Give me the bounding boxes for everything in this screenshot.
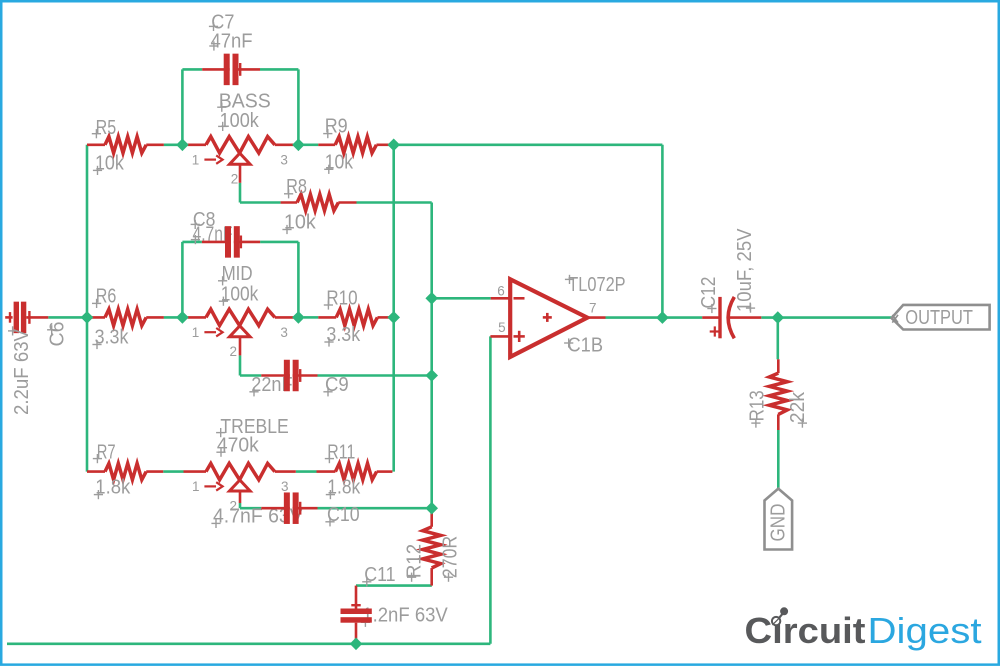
wire — [318, 507, 432, 510]
resistor R8 — [281, 194, 357, 210]
resistor R13 — [769, 359, 787, 430]
resistor R9 — [318, 137, 389, 153]
svg-text:22k: 22k — [787, 391, 809, 423]
resistor R5 — [87, 137, 164, 153]
label R7 name — [93, 441, 116, 463]
label BASS pin 3 — [280, 152, 288, 167]
wire — [304, 144, 319, 147]
junction node (87.0,317.4) — [81, 312, 92, 323]
label R12 value 270R — [440, 536, 462, 582]
label R11 name — [325, 441, 356, 463]
svg-text:Cırcuit: Cırcuit — [745, 610, 866, 651]
capacitor C10 — [261, 492, 317, 524]
label R5 value 10k — [93, 153, 125, 176]
svg-text:3: 3 — [280, 152, 288, 167]
label MID pin 3 — [280, 325, 288, 340]
wire — [164, 144, 183, 147]
label op-amp pin 7 — [589, 300, 597, 315]
svg-text:1.8k: 1.8k — [95, 476, 131, 498]
capacitor C11 — [341, 586, 372, 644]
resistor R6 — [87, 309, 164, 325]
svg-text:5: 5 — [498, 320, 506, 335]
wire feedback vertical — [392, 145, 395, 472]
capacitor C9 — [261, 360, 317, 392]
label R10 name — [324, 288, 358, 310]
capacitor C8 — [202, 226, 260, 258]
svg-text:7: 7 — [589, 300, 597, 315]
wire ground bus — [7, 642, 490, 645]
junction node (298.4,317.4) — [293, 312, 304, 323]
svg-text:47nF: 47nF — [211, 30, 253, 52]
svg-text:470k: 470k — [217, 434, 260, 456]
svg-text:100k: 100k — [220, 110, 260, 132]
svg-text:R10: R10 — [326, 288, 357, 310]
svg-text:2.2uF 63V: 2.2uF 63V — [11, 328, 33, 415]
potentiometer BASS — [188, 137, 294, 183]
svg-text:3.3k: 3.3k — [95, 327, 130, 349]
capacitor C7 — [202, 54, 260, 86]
svg-text:10uF, 25V: 10uF, 25V — [734, 228, 756, 312]
svg-text:2: 2 — [231, 172, 239, 187]
svg-text:R5: R5 — [96, 117, 117, 139]
label R13 value 22k — [787, 391, 809, 428]
svg-text:2: 2 — [230, 344, 238, 359]
label op-amp designator C1B — [564, 334, 603, 356]
svg-text:3.3k: 3.3k — [326, 324, 361, 346]
label BASS value 100k — [218, 110, 260, 132]
svg-text:C10: C10 — [327, 504, 360, 526]
label R13 name — [747, 390, 769, 427]
wire — [182, 68, 202, 71]
wire — [296, 470, 317, 473]
svg-text:1: 1 — [192, 152, 200, 167]
resistor R11 — [317, 463, 393, 479]
label C10 value 4.7nF 63V — [211, 506, 303, 529]
wire — [260, 241, 298, 244]
svg-text:Digest: Digest — [868, 610, 982, 651]
wire — [432, 297, 491, 300]
wire pin5 vertical — [489, 336, 492, 643]
wire R13 to GND — [777, 430, 780, 489]
svg-text:3: 3 — [281, 479, 289, 494]
label op-amp pin 6 — [497, 284, 505, 299]
label C10 name — [325, 504, 359, 526]
wire — [182, 241, 202, 244]
label MID pin 1 — [192, 325, 200, 340]
wire — [390, 144, 394, 147]
wire output riser — [661, 145, 664, 318]
op-amp IC1B — [490, 279, 605, 357]
svg-text:10k: 10k — [95, 153, 125, 175]
label TREBLE pin 1 — [192, 479, 200, 494]
svg-text:R12: R12 — [404, 544, 426, 578]
label R6 value 3.3k — [92, 327, 129, 350]
wire — [164, 316, 183, 319]
wire R13 top — [776, 318, 779, 360]
label C11 name — [362, 564, 395, 586]
junction node (356.0,643.8) — [350, 638, 361, 649]
wire — [260, 68, 298, 71]
label TREBLE pin 3 — [281, 479, 289, 494]
junction node (182.4,317.4) — [177, 312, 188, 323]
svg-text:1: 1 — [192, 479, 200, 494]
potentiometer MID — [188, 309, 294, 355]
wire — [304, 316, 319, 319]
resistor R10 — [318, 309, 391, 325]
potentiometer TREBLE — [184, 463, 296, 503]
label BASS name — [217, 90, 271, 112]
label C9 value 22nF — [249, 374, 292, 396]
svg-text:R8: R8 — [286, 176, 307, 198]
label MID value 100k — [219, 283, 259, 305]
wire C7 left riser — [181, 69, 184, 144]
resistor R7 — [87, 463, 163, 479]
junction node (662.4,317.6) — [657, 312, 668, 323]
label R10 value 3.3k — [324, 324, 361, 347]
wire C7 right riser — [297, 69, 300, 144]
resistor R12 — [423, 508, 441, 585]
svg-text:R6: R6 — [96, 286, 117, 308]
svg-text:3: 3 — [280, 325, 288, 340]
svg-text:6: 6 — [497, 284, 505, 299]
svg-text:1.8k: 1.8k — [327, 476, 361, 498]
svg-text:OUTPUT: OUTPUT — [905, 307, 973, 329]
wire — [318, 374, 432, 377]
label BASS pin 2 — [231, 172, 239, 187]
junction node (393.7,144.8) — [388, 139, 399, 150]
svg-text:R13: R13 — [747, 390, 769, 421]
label C8 value 4.7nF — [191, 223, 233, 245]
label MID pin 2 — [230, 344, 238, 359]
label R8 name — [284, 176, 307, 198]
label R9 value 10k — [324, 151, 354, 174]
label op-amp pin 5 — [498, 320, 506, 335]
label TREBLE value 470k — [216, 434, 259, 456]
label R9 name — [323, 116, 348, 139]
svg-text:1.2nF 63V: 1.2nF 63V — [362, 605, 448, 627]
wire — [240, 507, 261, 510]
wire C8 left riser — [181, 242, 184, 318]
label C8 name — [191, 209, 216, 231]
svg-text:10k: 10k — [284, 212, 317, 234]
wire — [356, 584, 432, 587]
label R6 name — [92, 286, 116, 309]
junction node (431.7,298.3) — [426, 293, 437, 304]
svg-text:R9: R9 — [325, 116, 348, 138]
label C6 name — [47, 322, 69, 347]
svg-text:1: 1 — [192, 325, 200, 340]
wire bass wiper down — [239, 183, 242, 203]
wire — [394, 144, 663, 147]
junction node (431.7,375.5) — [426, 370, 437, 381]
junction node (298.4,144.8) — [293, 139, 304, 150]
logo CircuitDigest — [745, 607, 982, 651]
wire mid wiper down — [239, 355, 242, 375]
capacitor C6 — [5, 302, 48, 334]
label op-amp name TL072P — [565, 274, 626, 296]
label TREBLE pin 2 — [230, 499, 238, 514]
label C6 value 2.2uF 63V — [8, 326, 33, 415]
svg-text:C11: C11 — [364, 564, 395, 586]
svg-text:10k: 10k — [325, 151, 354, 173]
label C12 name — [698, 277, 720, 314]
wire — [606, 316, 663, 319]
wire — [240, 201, 281, 204]
junction node (431.7,508.2) — [426, 503, 437, 514]
label C12 value 10uF, 25V — [734, 228, 756, 313]
junction node (777.8,317.6) — [772, 312, 783, 323]
label MID name — [218, 263, 253, 286]
svg-text:270R: 270R — [440, 536, 462, 578]
svg-text:TL072P: TL072P — [568, 274, 625, 296]
label R8 value 10k — [282, 212, 316, 235]
wire — [240, 374, 261, 377]
label TREBLE name — [216, 416, 289, 438]
junction node (182.4,144.8) — [177, 139, 188, 150]
wire treble wiper down — [239, 503, 242, 508]
label R11 value 1.8k — [326, 476, 361, 499]
wire C8 right riser — [297, 242, 300, 318]
svg-text:C6: C6 — [47, 322, 69, 347]
svg-text:GND: GND — [768, 504, 790, 542]
svg-text:100k: 100k — [221, 283, 259, 305]
svg-text:C8: C8 — [193, 209, 216, 231]
svg-text:R7: R7 — [97, 441, 116, 463]
wire — [357, 201, 432, 204]
svg-text:C12: C12 — [698, 277, 720, 309]
svg-text:C9: C9 — [325, 374, 349, 396]
wire summing vertical — [430, 203, 433, 509]
label R12 name — [404, 544, 426, 582]
wire — [390, 316, 394, 319]
wire — [48, 316, 87, 319]
svg-text:R11: R11 — [327, 441, 355, 463]
label R7 value 1.8k — [94, 476, 131, 499]
junction node (393.7,317.4) — [388, 312, 399, 323]
capacitor C12 — [702, 297, 761, 338]
label C7 value 47nF — [209, 30, 252, 52]
svg-text:C1B: C1B — [568, 334, 604, 356]
wire — [662, 316, 702, 319]
label C7 name — [209, 11, 235, 33]
wire — [761, 316, 891, 319]
node OUTPUT flag — [892, 305, 990, 330]
svg-text:C7: C7 — [211, 11, 234, 33]
wire — [163, 470, 183, 473]
ground GND flag — [765, 489, 793, 550]
wire input net vertical — [86, 145, 89, 472]
label BASS pin 1 — [192, 152, 200, 167]
svg-text:MID: MID — [222, 263, 253, 285]
label R5 name — [92, 117, 116, 139]
label C11 value 1.2nF 63V — [361, 605, 449, 627]
label C9 name — [323, 374, 348, 396]
